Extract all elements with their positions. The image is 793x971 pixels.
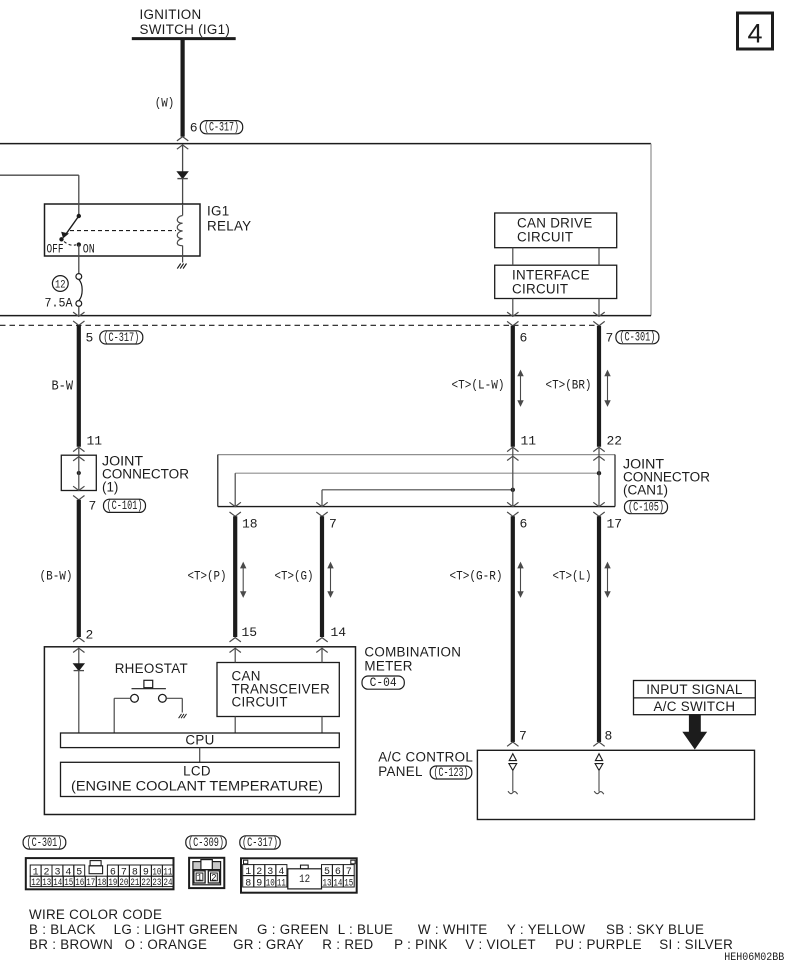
svg-text:(C-309): (C-309) <box>188 836 224 850</box>
fork on section line left <box>73 312 84 316</box>
svg-text:14: 14 <box>331 625 347 640</box>
fork terminal below bus line <box>177 145 188 149</box>
fork above CAN1 pin22 <box>593 447 604 451</box>
signal arrow L-W <box>520 375 522 402</box>
svg-text:ON: ON <box>83 242 95 256</box>
combination meter label <box>364 644 461 673</box>
svg-text:(C-317): (C-317) <box>242 836 278 850</box>
wire CPU to LCD <box>199 748 201 763</box>
signal arrow BR <box>607 375 609 402</box>
bus box bottom edge <box>0 315 651 317</box>
joint connector CAN1 label <box>623 456 710 497</box>
svg-text:LCD: LCD <box>183 764 211 779</box>
page number box 4 <box>738 13 773 49</box>
fork above CAN1 bottom pin17 <box>593 502 604 506</box>
circled fuse number 12 <box>52 276 68 292</box>
svg-text:COMBINATION: COMBINATION <box>364 644 461 659</box>
wire pin15 to transceiver <box>234 648 236 662</box>
fork above CAN1 pin11 <box>507 447 518 451</box>
svg-text:15: 15 <box>242 625 258 640</box>
connector label C-301 bottom <box>23 836 66 849</box>
svg-text:22: 22 <box>607 433 623 448</box>
section split dashed line <box>0 324 599 326</box>
fork above meter pin 14 <box>316 638 327 642</box>
CAN transceiver circuit box <box>217 663 339 717</box>
svg-text:G : GREEN: G : GREEN <box>257 922 329 937</box>
svg-text:6: 6 <box>520 516 528 531</box>
svg-text:18: 18 <box>97 877 106 889</box>
connector C-317 pin diagram <box>241 858 357 892</box>
svg-text:18: 18 <box>242 516 258 531</box>
wire T G-R <box>511 516 515 742</box>
diode D2 in meter <box>74 664 84 671</box>
svg-text:PU : PURPLE: PU : PURPLE <box>555 937 642 952</box>
svg-text:C-04: C-04 <box>370 676 397 690</box>
svg-text:IGNITION: IGNITION <box>140 7 202 22</box>
svg-text:21: 21 <box>130 877 139 889</box>
wire through CAN1 pin11 <box>512 447 514 506</box>
fork above CAN1 bottom pin7 <box>316 502 327 506</box>
connector label C-04 <box>362 676 404 689</box>
connector label C-105 <box>625 501 668 514</box>
input signal / A-C switch box <box>634 681 756 715</box>
fork above joint connector 1 <box>73 447 84 451</box>
svg-text:6: 6 <box>520 331 528 346</box>
connector label C-123 <box>430 766 472 779</box>
connector label C-317 top <box>200 121 242 134</box>
fork terminal above bus line <box>177 137 188 141</box>
svg-text:CIRCUIT: CIRCUIT <box>517 229 573 244</box>
svg-text:6: 6 <box>335 866 341 878</box>
CAN-L wire upper right <box>511 326 515 447</box>
svg-text:22: 22 <box>141 877 150 889</box>
fork below CAN1 bottom pin7 <box>316 512 327 516</box>
svg-text:(C-317): (C-317) <box>103 331 139 345</box>
CAN-H wire upper right <box>597 326 601 447</box>
svg-text:(ENGINE COOLANT TEMPERATURE): (ENGINE COOLANT TEMPERATURE) <box>71 779 323 794</box>
svg-text:IG1: IG1 <box>207 204 229 219</box>
wire relay ON to fuse <box>78 245 80 274</box>
svg-text:17: 17 <box>86 877 95 889</box>
svg-text:4: 4 <box>747 19 762 49</box>
ignition switch (IG1) label <box>140 7 231 37</box>
svg-text:11: 11 <box>521 433 537 448</box>
A/C control panel label <box>378 749 473 779</box>
ground under relay coil <box>177 264 186 269</box>
fork below CAN1 bottom pin18 <box>230 512 241 516</box>
svg-text:8: 8 <box>605 728 613 743</box>
svg-text:7: 7 <box>329 516 337 531</box>
signal arrow G-R <box>520 567 522 592</box>
svg-text:7: 7 <box>89 499 97 514</box>
fork pin7 on section line <box>593 312 604 316</box>
svg-text:WIRE COLOR CODE: WIRE COLOR CODE <box>29 907 162 922</box>
svg-text:11: 11 <box>277 877 286 889</box>
svg-text:5: 5 <box>324 866 330 878</box>
svg-text:B-W: B-W <box>52 380 74 395</box>
rheostat right lead <box>166 698 182 712</box>
CAN drive circuit box <box>495 213 617 248</box>
svg-text:12: 12 <box>31 877 40 889</box>
svg-text:CPU: CPU <box>185 732 214 747</box>
svg-text:(B-W): (B-W) <box>40 569 73 584</box>
fork below CAN1 bottom pin17 <box>593 512 604 516</box>
svg-text:1: 1 <box>197 873 203 884</box>
svg-text:(W): (W) <box>155 96 175 111</box>
svg-text:GR : GRAY: GR : GRAY <box>233 937 304 952</box>
IG1 relay label <box>207 204 251 234</box>
svg-text:13: 13 <box>42 877 51 889</box>
IG1 relay box <box>45 204 201 256</box>
svg-text:14: 14 <box>53 877 62 889</box>
relay coil <box>177 204 182 263</box>
CPU box <box>61 732 340 747</box>
svg-text:HEH06M02BB: HEH06M02BB <box>724 952 784 964</box>
wire transceiver to CPU right <box>321 717 323 734</box>
svg-text:20: 20 <box>119 877 128 889</box>
fork below CAN1 top edge pin11 <box>507 456 518 460</box>
svg-text:9: 9 <box>256 877 262 889</box>
fork on dashed line left <box>73 321 84 325</box>
svg-text:1: 1 <box>245 866 251 878</box>
wire fuse to section line <box>78 306 80 316</box>
svg-text:RHEOSTAT: RHEOSTAT <box>115 661 188 676</box>
wire color code legend <box>29 907 733 952</box>
svg-text:10: 10 <box>266 877 275 889</box>
svg-text:2: 2 <box>211 873 217 884</box>
svg-text:17: 17 <box>607 516 623 531</box>
svg-text:<T>(BR): <T>(BR) <box>546 378 592 393</box>
svg-text:(1): (1) <box>102 479 118 494</box>
wire transceiver to CPU left <box>234 717 236 734</box>
fork pin7 on dashed line <box>593 321 604 325</box>
svg-text:24: 24 <box>163 877 172 889</box>
connector C-309 pin diagram <box>189 858 224 888</box>
joint connector CAN1 box <box>218 455 615 507</box>
svg-text:6: 6 <box>190 121 198 136</box>
signal arrow G <box>330 567 332 592</box>
svg-text:<T>(P): <T>(P) <box>188 569 227 584</box>
wire B-W lower <box>77 500 81 637</box>
ignition switch terminal bar <box>132 37 236 40</box>
wire T P <box>233 516 237 637</box>
svg-text:RELAY: RELAY <box>207 219 251 234</box>
fork above bottom edge joint connector 1 <box>73 486 84 490</box>
fork below top edge joint connector 1 <box>73 457 84 461</box>
wire CAN drive to interface right <box>598 248 600 266</box>
svg-text:BR : BROWN: BR : BROWN <box>29 937 113 952</box>
svg-text:P : PINK: P : PINK <box>394 937 448 952</box>
interface circuit box <box>495 265 617 298</box>
wire diode to relay <box>182 179 184 204</box>
wire W from ignition switch <box>181 39 185 137</box>
diode D1 <box>177 172 187 179</box>
rheostat ground <box>179 714 187 718</box>
wire CAN drive to interface left <box>512 248 514 266</box>
svg-text:7: 7 <box>346 866 352 878</box>
fork below joint connector 1 <box>73 496 84 500</box>
svg-text:CIRCUIT: CIRCUIT <box>512 281 568 296</box>
svg-text:Y : YELLOW: Y : YELLOW <box>507 922 585 937</box>
svg-text:5: 5 <box>86 331 94 346</box>
svg-text:(CAN1): (CAN1) <box>623 482 668 497</box>
svg-text:7: 7 <box>519 728 527 743</box>
wire diode to CPU <box>78 671 80 733</box>
fork above CAN1 bottom pin6 <box>507 502 518 506</box>
fork pin6 on dashed line <box>507 321 518 325</box>
fork below meter edge pin 14 <box>316 648 327 652</box>
svg-text:INTERFACE: INTERFACE <box>512 267 590 282</box>
svg-text:<T>(L-W): <T>(L-W) <box>452 378 505 393</box>
svg-text:CAN DRIVE: CAN DRIVE <box>517 215 593 230</box>
fork above meter pin 2 <box>73 638 84 642</box>
svg-text:L : BLUE: L : BLUE <box>338 922 394 937</box>
bus box right edge <box>650 144 652 316</box>
svg-text:7.5A: 7.5A <box>45 297 73 311</box>
svg-text:12: 12 <box>299 874 310 886</box>
svg-text:SB : SKY BLUE: SB : SKY BLUE <box>606 922 704 937</box>
svg-text:15: 15 <box>64 877 73 889</box>
svg-text:16: 16 <box>75 877 84 889</box>
fork above panel pin 7 <box>507 742 518 746</box>
svg-text:(C-301): (C-301) <box>26 836 62 850</box>
wire meter pin2 to diode <box>78 648 80 664</box>
svg-text:<T>(G): <T>(G) <box>275 569 314 584</box>
svg-text:<T>(L): <T>(L) <box>553 569 592 584</box>
svg-text:V : VIOLET: V : VIOLET <box>465 937 536 952</box>
CAN1 bus junction dot pin11 <box>511 488 515 492</box>
svg-text:SI : SILVER: SI : SILVER <box>659 937 733 952</box>
fork pin6 on section line <box>507 312 518 316</box>
joint connector (1) label <box>102 453 189 494</box>
panel terminal symbol pin 7 <box>508 754 518 795</box>
svg-text:W : WHITE: W : WHITE <box>418 922 488 937</box>
A/C control panel box <box>477 750 754 819</box>
svg-text:R : RED: R : RED <box>322 937 373 952</box>
svg-text:(C-317): (C-317) <box>204 121 239 135</box>
fork above CAN1 bottom pin18 <box>230 502 241 506</box>
CAN1 bus line 2 <box>235 472 599 474</box>
svg-text:13: 13 <box>322 877 331 889</box>
svg-text:INPUT SIGNAL: INPUT SIGNAL <box>646 682 742 697</box>
svg-text:15: 15 <box>344 877 353 889</box>
svg-text:A/C CONTROL: A/C CONTROL <box>378 749 473 764</box>
signal arrow P <box>242 567 244 592</box>
wire interface to pin 6 <box>512 299 514 317</box>
svg-text:SWITCH (IG1): SWITCH (IG1) <box>140 22 231 37</box>
wire pin14 to transceiver <box>321 648 323 662</box>
wire T L <box>597 516 601 742</box>
svg-text:PANEL: PANEL <box>378 764 422 779</box>
combination meter box <box>44 647 355 815</box>
relay switch contacts <box>59 214 81 247</box>
input signal arrow <box>683 715 706 749</box>
svg-text:O : ORANGE: O : ORANGE <box>125 937 208 952</box>
CAN1 bus line 3 <box>322 489 513 491</box>
LCD box <box>61 762 340 796</box>
joint connector (1) box <box>61 455 96 490</box>
svg-text:OFF: OFF <box>47 242 64 256</box>
svg-text:2: 2 <box>86 628 94 643</box>
svg-text:19: 19 <box>108 877 117 889</box>
svg-text:LG : LIGHT GREEN: LG : LIGHT GREEN <box>114 922 238 937</box>
svg-text:B : BLACK: B : BLACK <box>29 922 96 937</box>
connector label C-301 top <box>616 331 659 344</box>
wire interface to pin 7 <box>598 299 600 317</box>
wire through CAN1 pin22 <box>598 447 600 506</box>
fuse 12 symbol <box>76 274 82 307</box>
connector label C-309 bottom <box>186 836 226 849</box>
svg-text:12: 12 <box>55 280 66 292</box>
svg-text:(C-123): (C-123) <box>434 766 469 780</box>
CAN1 bus junction dot pin22 <box>597 471 601 475</box>
svg-text:CIRCUIT: CIRCUIT <box>232 694 288 709</box>
fork below CAN1 bottom pin6 <box>507 512 518 516</box>
connector label C-317 mid <box>100 331 143 344</box>
wire feed to relay switch <box>0 175 79 216</box>
fork below meter edge pin 15 <box>230 648 241 652</box>
svg-text:8: 8 <box>245 877 251 889</box>
wire B-W upper <box>77 325 81 447</box>
wire through joint connector 1 <box>78 447 80 490</box>
fork below CAN1 top edge pin22 <box>593 456 604 460</box>
svg-text:(C-105): (C-105) <box>628 501 664 515</box>
svg-text:3: 3 <box>267 866 273 878</box>
wire from bus to diode <box>182 145 184 172</box>
relay actuation dashed link <box>70 230 176 232</box>
wire T G <box>320 516 324 637</box>
svg-text:14: 14 <box>333 877 342 889</box>
svg-text:23: 23 <box>152 877 161 889</box>
connector C-301 pin diagram <box>26 858 174 889</box>
fork above panel pin 8 <box>593 742 604 746</box>
svg-text:<T>(G-R): <T>(G-R) <box>450 569 503 584</box>
svg-text:(C-301): (C-301) <box>619 331 655 345</box>
panel terminal symbol pin 8 <box>594 754 604 795</box>
connector label C-101 <box>104 499 146 512</box>
svg-text:(C-101): (C-101) <box>107 499 143 513</box>
svg-text:METER: METER <box>364 658 412 673</box>
rheostat left lead <box>114 698 130 733</box>
joint connector (1) junction dot <box>77 471 81 475</box>
rheostat symbol <box>131 680 167 702</box>
connector label C-317 bottom <box>240 836 280 849</box>
CAN1 drop wire pin7 <box>321 490 323 507</box>
CAN1 drop wire pin18 <box>234 473 236 506</box>
fork below meter edge pin 2 <box>73 648 84 652</box>
svg-text:7: 7 <box>606 331 614 346</box>
signal arrow L <box>607 567 609 592</box>
svg-text:2: 2 <box>256 866 262 878</box>
svg-text:11: 11 <box>87 433 103 448</box>
svg-text:A/C SWITCH: A/C SWITCH <box>653 699 735 714</box>
svg-text:4: 4 <box>278 866 284 878</box>
fork above meter pin 15 <box>230 638 241 642</box>
bus box top edge <box>0 143 651 145</box>
